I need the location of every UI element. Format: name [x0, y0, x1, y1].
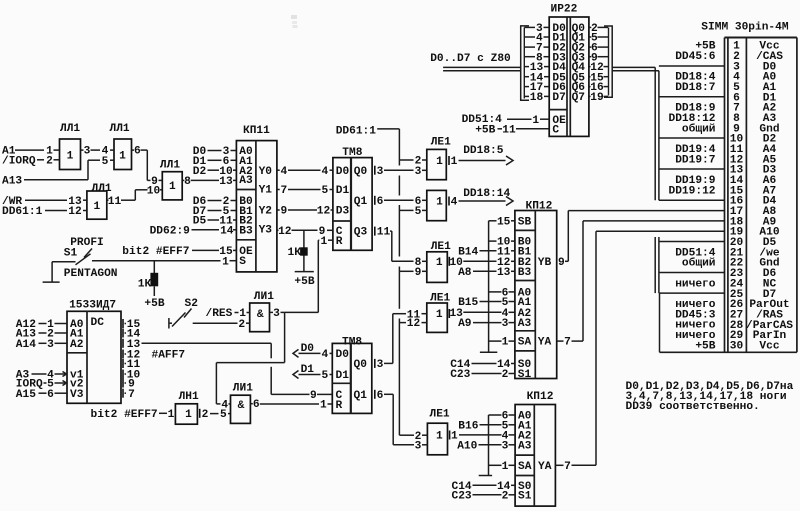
net D0..D7 с Z80 bus label	[430, 53, 511, 65]
svg-text:9: 9	[280, 206, 287, 218]
svg-text:1: 1	[169, 181, 176, 193]
net DD62:9 -> КП11 B3 pin 14	[150, 225, 237, 237]
net +5В -> ИР22 C pin 11	[475, 124, 549, 136]
svg-text:3: 3	[415, 166, 422, 178]
svg-text:5: 5	[321, 185, 328, 197]
svg-text:DD45:6: DD45:6	[675, 51, 716, 63]
svg-text:ЛЛ1: ЛЛ1	[110, 123, 130, 135]
svg-text:1К: 1К	[288, 247, 302, 259]
gate DD ЛЛ1 element 4 (OR, pins 9,10 -> 8)	[160, 159, 182, 200]
ИД7 output pin 9	[123, 379, 135, 391]
ИД7 output pin 7	[123, 389, 135, 401]
wire КП11 Y3 pin 12 -> ТМ8 C pin 9	[277, 226, 333, 238]
svg-text:DD61:1: DD61:1	[336, 126, 377, 138]
svg-text:1: 1	[185, 409, 192, 421]
wire bus -> B0 pin 10	[489, 237, 515, 249]
svg-text:Q3: Q3	[354, 227, 368, 239]
wire YA pin 7 -> SIMM pin 18 (A9)	[557, 221, 725, 349]
svg-text:R: R	[336, 236, 343, 248]
net D5 -> КП11 B2 pin 11	[193, 216, 237, 228]
svg-text:Y0: Y0	[259, 166, 273, 178]
svg-text:DD62:9: DD62:9	[150, 225, 191, 237]
svg-text:9: 9	[310, 390, 317, 402]
svg-text:ЛН1: ЛН1	[179, 391, 199, 403]
ИД7 output pin 10	[123, 370, 140, 382]
wire ЛИ1 pin 6 -> ТМ8#2 R pin 1	[260, 400, 333, 412]
svg-text:6: 6	[47, 389, 54, 401]
svg-text:1: 1	[436, 257, 443, 269]
power +5В for R2	[144, 298, 164, 310]
wire DD61:1 -> ЛЕ1 pin 12	[399, 318, 426, 330]
svg-text:5: 5	[415, 206, 422, 218]
net A9 -> A3 pin 3	[458, 318, 515, 330]
net A13 -> ИД7 pin 2	[16, 329, 67, 341]
wire ТМ8#2 Q0 pin 3 -> ЛЕ1 pin 11	[393, 309, 427, 363]
svg-text:1: 1	[119, 150, 126, 162]
svg-text:5: 5	[321, 370, 328, 382]
svg-text:&: &	[238, 400, 245, 412]
svg-text:30: 30	[730, 340, 744, 352]
svg-text:ЛЕ1: ЛЕ1	[431, 137, 451, 149]
wire ТМ8#2 Q1 pin 6 -> ЛЕ1 pin 3	[393, 394, 427, 452]
svg-text:5: 5	[102, 156, 109, 168]
net DD18:5 output arrow	[451, 145, 513, 168]
svg-text:КП11: КП11	[243, 125, 270, 137]
wire КП11 Y0 pin 4 -> ТМ8 D0 pin 4	[277, 166, 333, 178]
svg-text:1: 1	[67, 150, 74, 162]
wire ЛЕ1 pin 13 -> A2 pin 4	[449, 308, 514, 320]
svg-text:DD18:5: DD18:5	[463, 145, 504, 157]
wire bus -> SB pin 15	[489, 216, 515, 228]
bus into ИР22 (double line)	[443, 67, 521, 70]
ground bus of КП12 #2	[479, 415, 492, 476]
svg-text:9: 9	[415, 267, 422, 279]
wire DD61:1 -> ЛЕ1 pin 2	[399, 431, 427, 443]
svg-text:Q1: Q1	[354, 390, 368, 402]
svg-text:3: 3	[502, 318, 509, 330]
svg-text:DD39 соответственно.: DD39 соответственно.	[626, 401, 760, 413]
svg-text:&: &	[257, 309, 264, 321]
svg-text:2: 2	[502, 369, 509, 381]
svg-text:ЛИ1: ЛИ1	[233, 383, 253, 395]
svg-text:D0: D0	[336, 349, 350, 361]
net bit2 #EFF7 -> КП11 OE pin 15	[122, 246, 236, 258]
wire ТМ8 Q1 pin 6 -> ЛЕ1 pin 6	[375, 196, 427, 208]
svg-text:ЛЛ1: ЛЛ1	[60, 123, 80, 135]
svg-text:4: 4	[321, 349, 328, 361]
svg-text:ИР22: ИР22	[551, 3, 578, 15]
svg-text:R: R	[336, 400, 343, 412]
svg-text:1: 1	[168, 409, 175, 421]
SIMM label cells separators and data row connections	[659, 66, 725, 352]
svg-text:/IORQ: /IORQ	[2, 155, 36, 167]
net A1 -> pin 1	[2, 146, 60, 158]
data bus lower section (D5,D6,D7)	[655, 237, 659, 293]
net B16 -> A1 pin 5	[458, 420, 515, 432]
wire YA pin 7 -> SIMM pin 19 (A10)	[555, 231, 724, 473]
svg-text:DD19:12: DD19:12	[669, 185, 716, 197]
svg-text:/RES: /RES	[206, 308, 233, 320]
svg-text:6: 6	[253, 399, 260, 411]
svg-text:3: 3	[377, 359, 384, 371]
resistor R1 1К pull-up on C net	[288, 230, 308, 271]
svg-text:DD19:7: DD19:7	[675, 154, 715, 166]
net IORQ -> ИД7 pin 5	[16, 379, 67, 391]
gate DD ЛИ1 element 1 (AND, pins 1,2 -> 3)	[250, 291, 275, 332]
svg-text:C: C	[552, 124, 559, 136]
wire КП11 Y1 pin 7 -> ТМ8 D1 pin 5	[277, 185, 333, 197]
gate DD ЛН1 (inverter, pin 1 -> 2)	[175, 391, 199, 424]
switch S1 PROFI/PENTAGON	[52, 237, 117, 280]
gate DD ЛЛ1 element 1 (OR, pins 1,2 -> 3)	[60, 123, 81, 169]
svg-text:D5: D5	[193, 216, 207, 228]
svg-text:1: 1	[436, 431, 443, 443]
svg-text:ЛИ1: ЛИ1	[254, 291, 274, 303]
svg-text:ЛЛ1: ЛЛ1	[160, 159, 180, 171]
svg-text:A3: A3	[239, 175, 253, 187]
svg-text:3: 3	[273, 308, 280, 320]
svg-text:7: 7	[564, 337, 571, 349]
svg-text:YA: YA	[538, 461, 552, 473]
net D6 -> КП11 B0 pin 2	[193, 196, 237, 208]
svg-text:13: 13	[497, 267, 511, 279]
svg-text:1: 1	[222, 256, 229, 268]
ИР22 output pin stubs 2,5,6,9,12,15,16,19	[589, 23, 608, 104]
chip DD 1533ИД7 (decoder DC)	[67, 299, 121, 403]
gate DD ЛИ1 element 2 (AND, pins 4,5 -> 6)	[231, 383, 254, 424]
wire S2 -> ЛИ1 pin 2	[193, 319, 250, 331]
svg-text:B3: B3	[239, 225, 253, 237]
net D1 -> КП11 A1 pin 6	[193, 156, 237, 168]
switch S2	[169, 298, 198, 328]
svg-text:2: 2	[238, 319, 245, 331]
svg-text:bit2 #EFF7: bit2 #EFF7	[122, 246, 189, 258]
net /RES -> ЛИ1 pin 1	[206, 308, 250, 320]
svg-text:12: 12	[317, 206, 331, 218]
svg-text:5: 5	[220, 409, 227, 421]
chip DD КП12 #2 (multiplexer)	[515, 391, 555, 506]
svg-text:YB: YB	[538, 257, 552, 269]
net A13 -> pin 5	[2, 156, 114, 188]
net A12 -> ИД7 pin 1	[16, 319, 67, 331]
wire DD61:1 -> ЛЕ1 pin 5	[399, 206, 426, 218]
gate DD ЛЕ1 element 5 (pins 2,3 -> 1)	[427, 409, 450, 455]
svg-text:18: 18	[530, 92, 544, 104]
wire pin6 -> pin 9	[132, 146, 163, 188]
svg-text:S1: S1	[518, 369, 532, 381]
net DD61:1 -> pin 12	[2, 206, 87, 218]
wire bus -> SA pin 1	[489, 461, 516, 473]
svg-text:9: 9	[558, 257, 565, 269]
bus bracket right of ИР22	[604, 26, 612, 97]
svg-text:D1: D1	[336, 185, 350, 197]
wire YB pin 9 -> SIMM pin 17 (A8)	[557, 211, 725, 269]
svg-text:14: 14	[220, 225, 234, 237]
net D2 -> КП11 A2 pin 10	[193, 166, 237, 178]
svg-text:+5В: +5В	[695, 340, 715, 352]
chip DD ТМ8 #2 (flip-flop register)	[332, 337, 372, 414]
svg-text:D1: D1	[336, 370, 350, 382]
svg-text:SB: SB	[518, 216, 532, 228]
svg-text:A14: A14	[16, 339, 36, 351]
net bit2 #EFF7 -> ЛН1 pin 1	[91, 409, 177, 421]
svg-text:1К: 1К	[138, 279, 152, 291]
svg-text:S: S	[239, 256, 246, 268]
svg-text:1533ИД7: 1533ИД7	[69, 299, 116, 311]
ИД7 output pin 13 (to ТМ8#2 C)	[123, 339, 140, 351]
svg-text:D2: D2	[193, 166, 207, 178]
net B14 -> B1 pin 11	[458, 246, 515, 258]
svg-text:V3: V3	[70, 389, 84, 401]
note text under SIMM	[626, 381, 794, 413]
wire pin 11 -> pin 10	[107, 185, 163, 207]
ИД7 output pin 12 #AFF7	[123, 350, 185, 362]
connector SIMM 30pin-4M table	[660, 21, 797, 352]
svg-text:1: 1	[436, 309, 443, 321]
wire DD61:1 -> ЛЕ1 pin 9	[399, 267, 426, 279]
ИД7 output pin 11	[123, 359, 140, 371]
svg-text:D3: D3	[336, 206, 350, 218]
svg-text:Q1: Q1	[354, 196, 368, 208]
net D0 -> КП11 A0 pin 3	[193, 146, 237, 158]
wire pin3 -> pin4	[81, 146, 115, 158]
net DD51:4 -> ИР22 OE pin 1	[462, 114, 550, 127]
net D0 output arrow from ТМ8#2 D0 pin 4	[293, 343, 332, 361]
svg-text:2: 2	[46, 155, 53, 167]
net A10 -> A3 pin 3	[457, 440, 515, 452]
svg-text:1: 1	[320, 236, 327, 248]
svg-text:1: 1	[502, 461, 509, 473]
gate DD ЛЕ1 element 1 (pins 2,3 -> 1) output DD18:5	[427, 137, 451, 180]
wire bus -> A0 pin 6	[489, 411, 516, 423]
svg-text:Q7: Q7	[572, 92, 585, 104]
svg-text:A15: A15	[16, 389, 36, 401]
wire ИД7 pin 13 -> ТМ8#2 C pin 9	[142, 343, 333, 402]
svg-text:2: 2	[202, 409, 209, 421]
svg-text:общий: общий	[682, 122, 716, 135]
svg-text:3: 3	[47, 339, 54, 351]
svg-text:+5В: +5В	[294, 276, 314, 288]
svg-text:11: 11	[502, 124, 516, 136]
gate DD ЛЕ1 element 2 (pins 6,5 -> 4) output DD18:14	[427, 190, 449, 220]
net A3 -> ИД7 pin 4	[16, 370, 67, 382]
svg-text:+5В: +5В	[475, 124, 495, 136]
svg-text:S1: S1	[64, 248, 78, 260]
svg-text:D0: D0	[336, 166, 350, 178]
net R of ТМ8 #1 (from ЛИ1 pin 3)	[216, 236, 333, 412]
svg-text:15: 15	[497, 216, 511, 228]
wire ЛЕ1 pin 1 -> A2 pin 4	[451, 431, 515, 443]
svg-text:ЛЕ1: ЛЕ1	[430, 409, 450, 421]
ground bus of КП12 #1	[480, 221, 497, 352]
net C23 -> S1 pin 2	[452, 490, 516, 502]
net /WR -> pin 13	[2, 196, 87, 208]
wire КП11 Y2 pin 9 -> ТМ8 D3 pin 12	[277, 206, 333, 218]
svg-text:+5В: +5В	[144, 298, 164, 310]
svg-text:1: 1	[320, 400, 327, 412]
svg-text:SA: SA	[518, 461, 532, 473]
svg-text:6: 6	[134, 146, 141, 158]
svg-text:3: 3	[377, 166, 384, 178]
svg-text:A8: A8	[458, 267, 472, 279]
wire ЛН1 pin 2 -> ЛИ1 pin 5	[202, 409, 231, 421]
svg-text:bit2 #EFF7: bit2 #EFF7	[91, 409, 158, 421]
svg-text:19: 19	[590, 92, 604, 104]
svg-text:8: 8	[184, 176, 191, 188]
data bus Q0..Q7 to SIMM (double line, upper section)	[612, 67, 659, 200]
wire ТМ8#2 Q0 pin 3 (tick and glyph)	[375, 359, 393, 371]
net B15 -> A1 pin 5	[458, 297, 515, 309]
svg-text:Q0: Q0	[354, 359, 368, 371]
svg-text:7: 7	[564, 461, 571, 473]
svg-text:11: 11	[108, 196, 122, 208]
svg-text:PENTAGON: PENTAGON	[64, 268, 118, 280]
svg-text:DD61:1: DD61:1	[2, 206, 43, 218]
svg-text:A2: A2	[70, 339, 84, 351]
svg-text:13: 13	[219, 176, 233, 188]
gate DD ЛЕ1 element 4 (pins 11,12 -> 13)	[427, 293, 451, 333]
svg-text:12: 12	[407, 318, 421, 330]
svg-text:Vcc: Vcc	[759, 340, 779, 352]
resistor R2 1К pull-up on S net	[138, 261, 158, 296]
svg-text:1: 1	[94, 201, 101, 213]
svg-text:3: 3	[84, 146, 91, 158]
svg-text:A9: A9	[458, 318, 472, 330]
wire S1 -> КП11 S pin 1	[92, 256, 236, 268]
svg-text:DD18:7: DD18:7	[675, 82, 715, 94]
svg-text:B3: B3	[518, 267, 532, 279]
net /IORQ -> pin 2	[2, 155, 60, 167]
svg-text:общий: общий	[682, 257, 716, 270]
svg-text:DC: DC	[91, 317, 105, 329]
chip DD КП11 (multiplexer)	[236, 125, 277, 272]
bus bracket left of ИР22	[521, 26, 529, 100]
svg-text:YA: YA	[538, 337, 552, 349]
svg-text:1: 1	[532, 115, 539, 127]
svg-text:SIMM 30pin-4M: SIMM 30pin-4M	[701, 21, 789, 33]
wire ЛЕ1 pin 10 -> B2 pin 12	[449, 257, 514, 269]
wire ТМ8 Q0 pin 3 -> ЛЕ1 pin 3	[375, 166, 427, 178]
ИД7 output pin 15	[123, 319, 140, 331]
svg-text:SA: SA	[518, 337, 532, 349]
svg-text:КП12: КП12	[527, 391, 554, 403]
gate DD ЛЛ1 element 3 (OR, pins 13,12 -> 11)	[87, 183, 112, 219]
svg-text:Q0: Q0	[354, 166, 368, 178]
net A14 -> ИД7 pin 3	[16, 339, 67, 351]
svg-text:Y1: Y1	[259, 184, 273, 196]
chip DD ТМ8 #1 (flip-flop register)	[333, 147, 372, 250]
svg-text:C23: C23	[450, 369, 470, 381]
svg-text:C23: C23	[452, 490, 472, 502]
svg-text:A3: A3	[518, 440, 532, 452]
svg-text:4: 4	[321, 166, 328, 178]
svg-text:1: 1	[436, 156, 443, 168]
svg-text:S2: S2	[185, 298, 199, 310]
svg-text:Y3: Y3	[259, 225, 273, 237]
ИР22 input pin stubs 3,4,7,8,13,14,17,18	[524, 23, 549, 104]
svg-text:3: 3	[415, 440, 422, 452]
svg-text:D0..D7 с Z80: D0..D7 с Z80	[430, 53, 511, 65]
svg-text:6: 6	[377, 390, 384, 402]
wire ЛЛ1 pin 8 -> КП11 A3 pin 13	[182, 176, 236, 188]
svg-text:#AFF7: #AFF7	[152, 350, 186, 362]
svg-text:D7: D7	[552, 92, 565, 104]
net C23 -> S1 pin 2	[450, 369, 515, 381]
svg-text:7: 7	[280, 185, 287, 197]
net A8 -> B3 pin 13	[458, 267, 515, 279]
SIMM connection labels	[669, 41, 716, 353]
net DD18:14 output arrow	[451, 188, 513, 208]
chip DD ИР22 (8-bit latch)	[549, 3, 589, 136]
svg-text:12: 12	[68, 206, 82, 218]
ЛИ1 pin 3 output glyph	[270, 308, 285, 320]
svg-text:12: 12	[278, 226, 292, 238]
wire bus -> A0 pin 6	[489, 288, 515, 300]
svg-text:11: 11	[377, 227, 391, 239]
wire DD61:1 -> ЛЕ1 pin 2	[399, 156, 426, 168]
net D1 output arrow from ТМ8#2 D1 pin 5	[293, 364, 332, 382]
svg-text:A13: A13	[2, 175, 22, 187]
svg-text:10: 10	[147, 185, 161, 197]
chip DD КП12 #1 (multiplexer)	[515, 200, 557, 381]
net A15 -> ИД7 pin 6	[16, 389, 67, 401]
svg-text:B16: B16	[458, 420, 478, 432]
svg-text:Y2: Y2	[259, 206, 273, 218]
svg-text:A3: A3	[518, 318, 532, 330]
faint artifact marks	[291, 15, 298, 28]
ИД7 output pin 14	[123, 329, 140, 341]
wire ТМ8 Q3 pin 11 -> ЛЕ1 pin 8	[375, 227, 427, 269]
svg-text:4: 4	[280, 166, 287, 178]
svg-text:ничего: ничего	[675, 278, 716, 290]
svg-text:3: 3	[502, 440, 509, 452]
svg-text:4: 4	[451, 197, 458, 209]
svg-text:2: 2	[502, 490, 509, 502]
wire ТМ8#2 Q1 pin 6 (tick and glyph)	[375, 390, 393, 402]
svg-text:S1: S1	[518, 490, 532, 502]
ground for S1	[43, 262, 60, 282]
svg-text:7: 7	[128, 389, 135, 401]
svg-text:1: 1	[436, 197, 443, 209]
svg-text:6: 6	[377, 196, 384, 208]
SIMM pin numbers and names	[730, 41, 794, 353]
svg-text:ЛЛ1: ЛЛ1	[92, 183, 112, 195]
svg-text:1: 1	[502, 337, 509, 349]
wire bus -> SA pin 1	[489, 337, 515, 349]
gate DD ЛЕ1 element 3 (pins 8,9 -> 10)	[427, 241, 451, 283]
svg-text:A10: A10	[457, 440, 477, 452]
power +5В bar for R1	[294, 272, 314, 289]
net C14 -> S0 pin 14	[450, 359, 515, 371]
net C14 -> S0 pin 14	[452, 481, 516, 493]
svg-text:1: 1	[451, 156, 458, 168]
net DD61:1 vertical distribution	[336, 126, 400, 436]
svg-text:DD18:14: DD18:14	[463, 188, 510, 200]
gate DD ЛЛ1 element 2 (OR, pins 4,5 -> 6)	[110, 123, 132, 169]
net D7 -> КП11 B1 pin 5	[193, 206, 237, 218]
